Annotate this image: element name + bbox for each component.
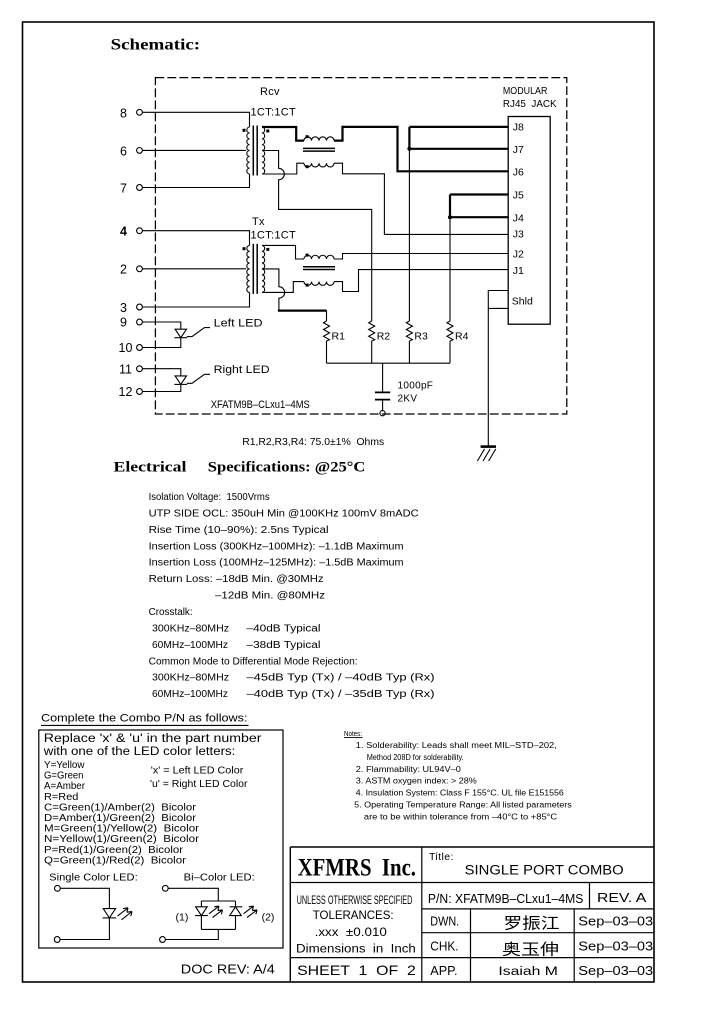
capacitor C1 plates xyxy=(375,392,390,399)
wire R2 to bus xyxy=(371,341,373,363)
svg-text:–40dB Typ (Tx) / –35dB Typ (Rx: –40dB Typ (Tx) / –35dB Typ (Rx) xyxy=(247,689,435,700)
pin 12 xyxy=(119,385,143,399)
leader Right LED xyxy=(187,374,210,383)
svg-text:(1): (1) xyxy=(176,912,189,924)
svg-text:.xxx ±0.010: .xxx ±0.010 xyxy=(315,927,387,939)
light arrows bicolor D1 xyxy=(209,906,223,918)
diode bicolor D2 xyxy=(230,901,243,929)
wire bicolor bottom bus xyxy=(201,928,235,930)
svg-text:R2: R2 xyxy=(377,331,391,343)
resistor R2 xyxy=(369,321,391,343)
pin 10 xyxy=(119,341,143,355)
transformer T2 primary winding xyxy=(247,245,250,292)
transformer T2 polarity dot primary xyxy=(243,247,246,250)
svg-text:1. Solderability: Leads shall: 1. Solderability: Leads shall meet MIL–S… xyxy=(356,741,557,750)
svg-text:Isolation Voltage: 1500Vrms: Isolation Voltage: 1500Vrms xyxy=(149,492,270,503)
pin 6 xyxy=(120,144,142,158)
wire T2 secondary center tap with hop xyxy=(262,269,285,311)
choke L2 core xyxy=(303,267,335,270)
svg-text:7: 7 xyxy=(120,182,127,196)
svg-text:1CT:1CT: 1CT:1CT xyxy=(251,230,297,242)
choke L1 dot top xyxy=(306,135,309,138)
wire choke L1 top to J6 xyxy=(334,127,508,171)
transformer T2 polarity dot secondary xyxy=(266,248,269,251)
svg-text:CHK.: CHK. xyxy=(430,940,458,954)
svg-text:J1: J1 xyxy=(513,265,524,277)
svg-text:A=Amber: A=Amber xyxy=(44,781,86,792)
svg-text:Method 208D for solderability.: Method 208D for solderability. xyxy=(367,753,464,762)
svg-text:R1,R2,R3,R4: 75.0±1% Ohms: R1,R2,R3,R4: 75.0±1% Ohms xyxy=(242,436,384,448)
svg-text:–40dB Typical: –40dB Typical xyxy=(247,623,321,634)
wire R4 to bus xyxy=(449,341,451,363)
svg-text:Dimensions in Inch: Dimensions in Inch xyxy=(296,943,416,955)
svg-text:奥玉伸: 奥玉伸 xyxy=(502,941,559,959)
svg-text:J2: J2 xyxy=(513,248,524,260)
wire LED D1 to pin10 xyxy=(142,338,180,348)
svg-text:3: 3 xyxy=(120,301,127,315)
pin 4 xyxy=(120,225,142,239)
svg-text:Insertion Loss (300KHz–100MHz): Insertion Loss (300KHz–100MHz): –1.1dB M… xyxy=(149,541,404,552)
transformer T1 core xyxy=(253,126,257,176)
svg-text:4. Insulation System: Class F: 4. Insulation System: Class F 155°C. UL … xyxy=(356,789,565,798)
wire T2 secondary bottom to choke L2 xyxy=(262,282,304,293)
svg-text:with one of the LED color lett: with one of the LED color letters: xyxy=(43,746,236,758)
wire T1 secondary center tap with hop to R2 xyxy=(262,151,372,322)
svg-text:'u' = Right LED Color: 'u' = Right LED Color xyxy=(150,779,248,790)
svg-text:Return Loss: –18dB Min. @30MHz: Return Loss: –18dB Min. @30MHz xyxy=(149,574,324,585)
svg-text:Y=Yellow: Y=Yellow xyxy=(44,760,85,771)
transformer T1 secondary winding xyxy=(262,127,265,174)
wire single LED bottom xyxy=(60,918,109,940)
wire R1 to bus xyxy=(326,341,328,363)
junction at J7 xyxy=(407,147,411,151)
resistor R3 xyxy=(406,321,428,343)
svg-text:Specifications: @25°C: Specifications: @25°C xyxy=(208,460,365,476)
svg-text:2. Flammability: UL94V–0: 2. Flammability: UL94V–0 xyxy=(356,765,462,774)
bicolor terminal top xyxy=(162,885,168,891)
svg-text:P/N: XFATM9B–CLxu1–4MS: P/N: XFATM9B–CLxu1–4MS xyxy=(428,891,584,906)
svg-text:N=Yellow(1)/Green(2) Bicolor: N=Yellow(1)/Green(2) Bicolor xyxy=(44,834,200,845)
svg-text:5. Operating Temperature Range: 5. Operating Temperature Range: All list… xyxy=(354,801,572,810)
wire bicolor top bus xyxy=(201,900,235,902)
light arrows bicolor D2 xyxy=(244,906,258,918)
pin 2 xyxy=(120,263,142,277)
wire J5 xyxy=(450,193,508,195)
earth ground xyxy=(477,447,496,461)
svg-text:APP.: APP. xyxy=(430,964,457,978)
svg-text:Single Color LED:: Single Color LED: xyxy=(49,871,138,883)
svg-text:MODULAR: MODULAR xyxy=(503,86,548,97)
bicolor terminal bottom xyxy=(160,937,166,943)
svg-text:1000pF: 1000pF xyxy=(398,381,434,392)
svg-text:Q=Green(1)/Red(2) Bicolor: Q=Green(1)/Red(2) Bicolor xyxy=(44,855,187,866)
svg-text:DWN.: DWN. xyxy=(430,915,459,929)
choke L1 dot bottom xyxy=(306,165,309,168)
svg-text:J6: J6 xyxy=(513,166,524,178)
diode single LED xyxy=(103,909,117,918)
pin 11 xyxy=(119,362,142,376)
svg-text:1CT:1CT: 1CT:1CT xyxy=(251,107,297,119)
svg-text:Replace 'x' & 'u' in the part: Replace 'x' & 'u' in the part number xyxy=(44,733,262,745)
title block frame xyxy=(290,847,654,982)
svg-text:are to be within tolerance fro: are to be within tolerance from –40°C to… xyxy=(364,812,557,821)
wire J4-J5 tie down to R4 xyxy=(449,217,451,321)
svg-text:Electrical: Electrical xyxy=(114,460,187,476)
svg-text:Insertion Loss (100MHz–125MHz): Insertion Loss (100MHz–125MHz): –1.5dB M… xyxy=(149,558,404,569)
choke L1 bottom winding xyxy=(304,163,334,167)
wire pin2 to T2 primary center tap xyxy=(142,268,246,270)
svg-text:Title:: Title: xyxy=(429,851,454,863)
wire choke L2 bottom to J1 xyxy=(334,270,508,292)
svg-text:M=Green(1)/Yellow(2) Bicolor: M=Green(1)/Yellow(2) Bicolor xyxy=(44,824,200,835)
svg-text:6: 6 xyxy=(120,144,127,158)
light arrows single LED xyxy=(118,908,133,920)
wire pin11 to LED D2 xyxy=(142,369,180,376)
transformer T1 polarity dot secondary xyxy=(266,130,269,133)
svg-text:2KV: 2KV xyxy=(398,394,418,405)
LED D2 right xyxy=(174,376,187,385)
svg-text:2: 2 xyxy=(120,263,127,277)
node chassis terminal xyxy=(380,411,385,416)
svg-text:60MHz–100MHz: 60MHz–100MHz xyxy=(152,689,228,700)
choke L2 bottom winding xyxy=(304,282,334,286)
svg-text:G=Green: G=Green xyxy=(44,771,84,782)
svg-text:SINGLE PORT COMBO: SINGLE PORT COMBO xyxy=(465,862,624,877)
svg-text:300KHz–80MHz: 300KHz–80MHz xyxy=(152,673,229,684)
wire pin7 to T1 primary bottom xyxy=(142,174,249,188)
pin 3 xyxy=(120,301,142,315)
svg-text:Common Mode to Differential Mo: Common Mode to Differential Mode Rejecti… xyxy=(149,656,358,667)
title block horizontal rules xyxy=(290,883,654,958)
connector J RJ45 jack body xyxy=(508,117,550,325)
wire J7-J8 tie down to R3 xyxy=(408,149,410,321)
svg-text:11: 11 xyxy=(119,362,132,376)
svg-text:Crosstalk:: Crosstalk: xyxy=(149,607,193,618)
pin 8 xyxy=(120,106,142,120)
choke L1 core xyxy=(303,148,335,151)
svg-text:SHEET 1 OF 2: SHEET 1 OF 2 xyxy=(297,962,416,978)
wire T1 secondary bottom to choke L1 xyxy=(262,163,304,174)
svg-text:–12dB Min. @80MHz: –12dB Min. @80MHz xyxy=(215,591,325,602)
svg-text:J8: J8 xyxy=(513,122,524,134)
choke L2 top winding xyxy=(304,255,334,259)
transformer T1 primary winding xyxy=(247,127,250,174)
wire bicolor top xyxy=(168,888,218,901)
wire pin4 to T2 primary top xyxy=(142,231,249,246)
choke L2 dot bottom xyxy=(306,284,309,287)
svg-text:Sep–03–03: Sep–03–03 xyxy=(578,915,653,929)
wire capacitor to chassis terminal xyxy=(382,400,384,411)
wire choke L1 bottom to J3 xyxy=(334,163,508,234)
LED D1 left xyxy=(174,329,187,338)
svg-text:Schematic:: Schematic: xyxy=(111,37,201,54)
svg-text:Rise Time (10–90%): 2.5ns Typi: Rise Time (10–90%): 2.5ns Typical xyxy=(149,525,329,536)
wire T1 secondary top to choke L1 xyxy=(262,127,304,141)
diode bicolor D1 xyxy=(195,901,208,929)
wire J7 with tie to J8 xyxy=(409,127,508,149)
combo box xyxy=(39,730,283,948)
single LED terminal bottom xyxy=(54,937,60,943)
svg-text:TOLERANCES:: TOLERANCES: xyxy=(313,910,394,922)
svg-text:J3: J3 xyxy=(513,229,524,241)
svg-text:–38dB Typical: –38dB Typical xyxy=(247,640,321,651)
svg-text:REV. A: REV. A xyxy=(597,891,647,905)
svg-text:DOC REV: A/4: DOC REV: A/4 xyxy=(181,961,275,976)
wire bus to capacitor C1 xyxy=(382,363,384,392)
svg-text:UTP SIDE OCL: 350uH Min @100KH: UTP SIDE OCL: 350uH Min @100KHz 100mV 8m… xyxy=(149,508,419,519)
wire pin3 to T2 primary bottom xyxy=(142,292,249,307)
svg-text:Sep–03–03: Sep–03–03 xyxy=(578,939,653,953)
wire down to R1 xyxy=(326,311,328,321)
svg-text:Tx: Tx xyxy=(252,216,265,228)
choke L2 dot top xyxy=(306,254,309,257)
wire Shld bracket xyxy=(488,291,508,309)
svg-text:10: 10 xyxy=(119,341,133,355)
schematic dashed boundary xyxy=(155,78,566,414)
wire LED D2 to pin12 xyxy=(142,384,180,391)
svg-text:J7: J7 xyxy=(513,144,524,156)
svg-text:R4: R4 xyxy=(455,331,469,343)
svg-text:P=Red(1)/Green(2) Bicolor: P=Red(1)/Green(2) Bicolor xyxy=(44,845,184,856)
svg-text:3. ASTM oxygen index: > 28%: 3. ASTM oxygen index: > 28% xyxy=(356,777,477,786)
wire R3 to bus xyxy=(408,341,410,363)
svg-text:罗振江: 罗振江 xyxy=(504,914,560,932)
single LED terminal top xyxy=(55,885,61,891)
transformer T1 polarity dot primary xyxy=(243,129,246,132)
svg-text:Bi–Color LED:: Bi–Color LED: xyxy=(184,871,255,883)
svg-text:Notes:: Notes: xyxy=(344,729,362,738)
resistor R1 xyxy=(324,321,346,343)
resistor R4 xyxy=(447,321,469,343)
wire J4 with tie to J5 xyxy=(450,195,508,218)
wire single LED top xyxy=(60,888,109,908)
wire choke L2 top to J2 xyxy=(334,254,508,260)
title block vertical rules xyxy=(422,847,590,982)
svg-text:300KHz–80MHz: 300KHz–80MHz xyxy=(152,623,229,634)
svg-text:Right LED: Right LED xyxy=(214,364,270,376)
svg-text:Left LED: Left LED xyxy=(214,318,263,330)
svg-text:(2): (2) xyxy=(262,912,275,924)
svg-text:4: 4 xyxy=(120,225,127,239)
choke L1 top winding xyxy=(304,137,334,141)
pin 7 xyxy=(120,182,142,196)
svg-text:UNLESS OTHERWISE SPECIFIED: UNLESS OTHERWISE SPECIFIED xyxy=(297,893,413,907)
svg-text:9: 9 xyxy=(120,316,127,330)
svg-text:R1: R1 xyxy=(332,331,346,343)
svg-text:XFMRS Inc.: XFMRS Inc. xyxy=(298,854,416,881)
svg-text:Complete the Combo P/N as foll: Complete the Combo P/N as follows: xyxy=(41,712,248,724)
svg-text:Sep–03–03: Sep–03–03 xyxy=(578,964,653,978)
svg-text:RJ45 JACK: RJ45 JACK xyxy=(503,99,557,110)
wire pin6 to T1 primary center tap xyxy=(142,149,246,151)
svg-text:12: 12 xyxy=(119,385,133,399)
wire T2 center tap to R1 xyxy=(278,310,327,312)
svg-text:J4: J4 xyxy=(513,212,524,224)
wire pin9 to LED D1 xyxy=(142,322,180,329)
wire J8 xyxy=(409,126,508,128)
svg-text:8: 8 xyxy=(120,106,127,120)
svg-text:Rcv: Rcv xyxy=(260,86,280,98)
svg-text:Shld: Shld xyxy=(512,295,533,307)
wire Shld to earth xyxy=(487,308,489,446)
wire termination bus xyxy=(327,362,451,364)
svg-text:XFATM9B–CLxu1–4MS: XFATM9B–CLxu1–4MS xyxy=(211,399,310,411)
junction at J4 xyxy=(448,215,452,219)
svg-text:R=Red: R=Red xyxy=(44,792,78,803)
svg-text:J5: J5 xyxy=(513,190,524,202)
pin 9 xyxy=(120,316,142,330)
svg-text:C=Green(1)/Amber(2) Bicolor: C=Green(1)/Amber(2) Bicolor xyxy=(44,802,197,813)
svg-text:'x' = Left LED Color: 'x' = Left LED Color xyxy=(151,765,244,776)
leader Left LED xyxy=(187,328,210,337)
transformer T2 core xyxy=(253,244,257,294)
svg-text:D=Amber(1)/Green(2) Bicolor: D=Amber(1)/Green(2) Bicolor xyxy=(44,813,197,824)
svg-text:–45dB Typ (Tx) / –40dB Typ (Rx: –45dB Typ (Tx) / –40dB Typ (Rx) xyxy=(247,673,435,684)
wire pin8 to T1 primary top xyxy=(142,112,249,127)
wire T2 secondary top to choke L2 xyxy=(262,245,304,259)
wire bicolor bottom xyxy=(165,929,218,939)
svg-text:60MHz–100MHz: 60MHz–100MHz xyxy=(152,640,228,651)
svg-text:Isaiah M: Isaiah M xyxy=(498,966,558,978)
svg-text:R3: R3 xyxy=(414,331,428,343)
transformer T2 secondary winding xyxy=(262,245,265,292)
